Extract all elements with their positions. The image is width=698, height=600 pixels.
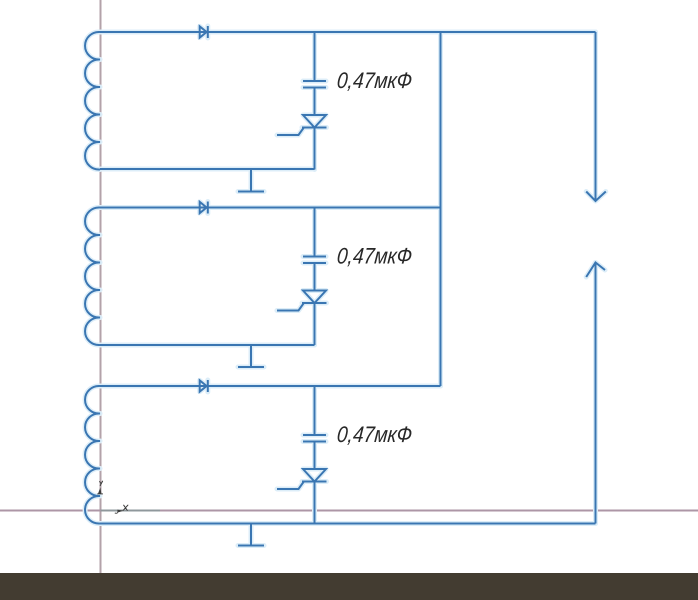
svg-text:0,47мкФ: 0,47мкФ [336, 68, 413, 93]
svg-text:0,47мкФ: 0,47мкФ [336, 422, 413, 447]
svg-text:0,47мкФ: 0,47мкФ [336, 243, 413, 268]
